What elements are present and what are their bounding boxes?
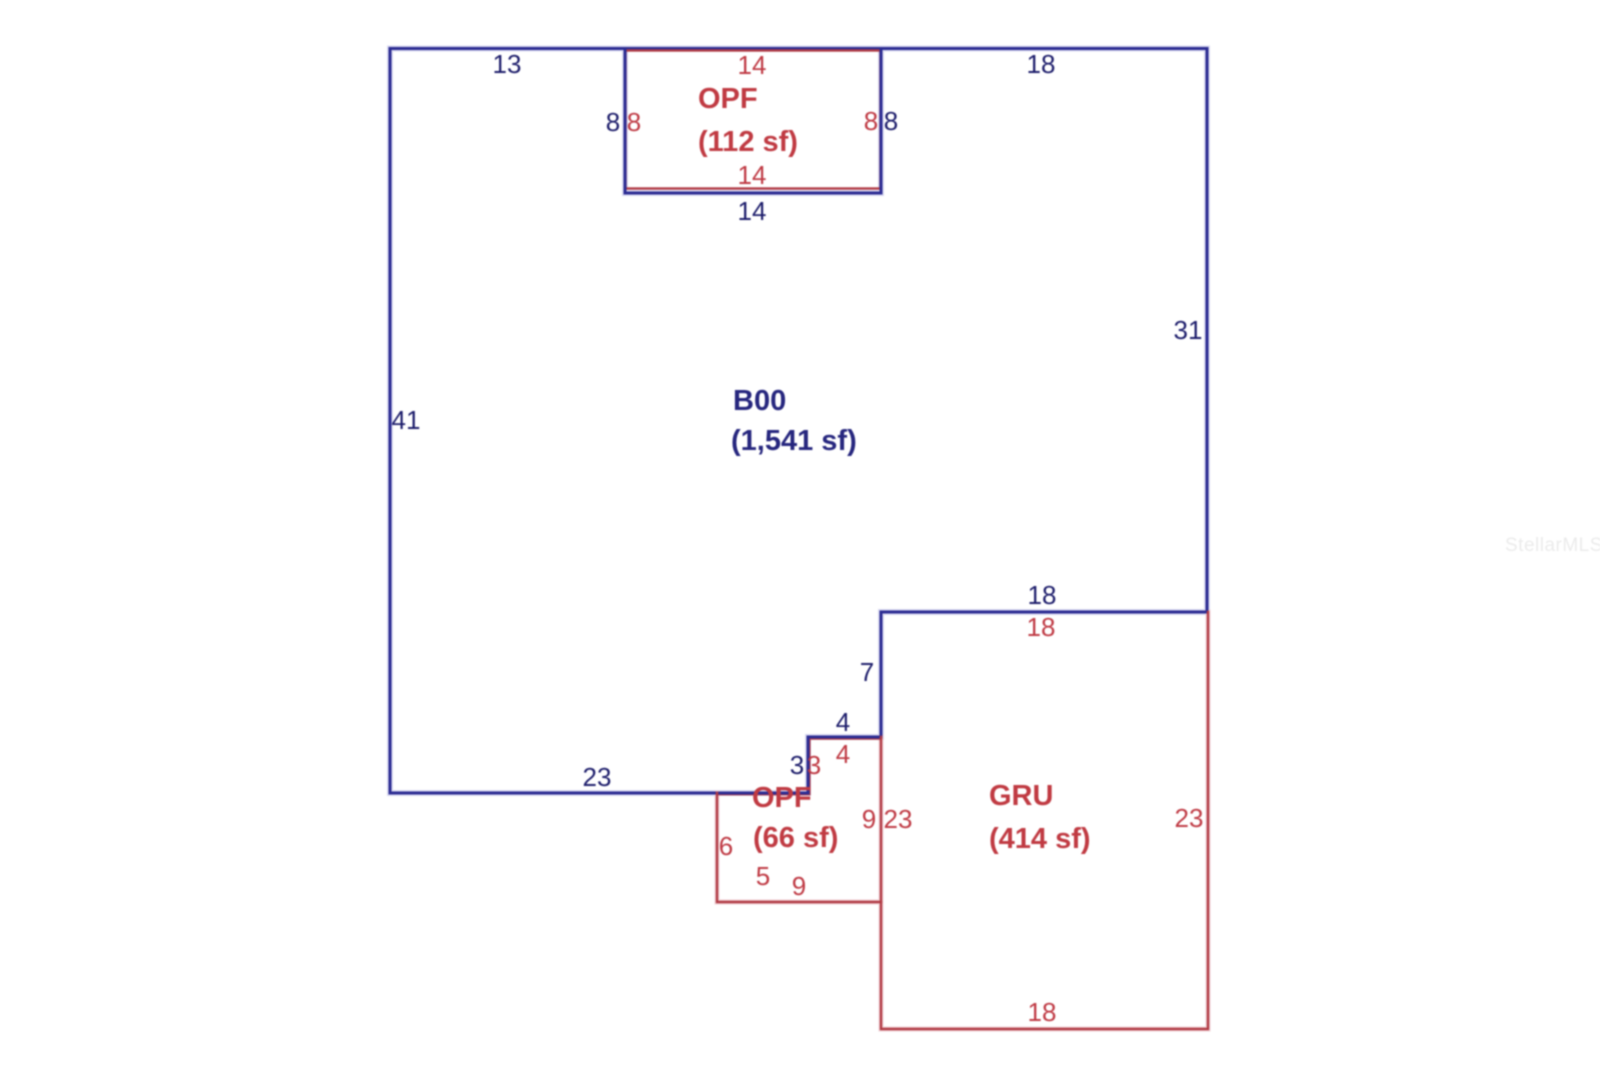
svg-text:4: 4 (836, 707, 850, 737)
svg-text:OPF: OPF (752, 782, 812, 814)
svg-text:GRU: GRU (989, 780, 1053, 812)
halo glow under red GRU and OPF outlines (717, 612, 1208, 1029)
svg-text:18: 18 (1027, 612, 1056, 642)
svg-text:(112 sf): (112 sf) (698, 126, 798, 158)
svg-text:23: 23 (583, 762, 612, 792)
svg-text:(1,541 sf): (1,541 sf) (731, 425, 857, 457)
svg-text:18: 18 (1027, 49, 1056, 79)
building B00 outline (blue polygon: top 13+14+18, right 31, bottom-right 18/7/4/3 steps, bottom 23, left 41) (390, 49, 1207, 794)
svg-text:18: 18 (1028, 997, 1057, 1027)
svg-text:41: 41 (392, 405, 421, 435)
svg-text:(66 sf): (66 sf) (753, 822, 838, 854)
garage GRU(414sf) red outline: left 23, bottom 18, right 23 (881, 612, 1208, 1029)
svg-text:8: 8 (606, 107, 620, 137)
svg-text:14: 14 (738, 50, 767, 80)
svg-text:7: 7 (860, 657, 874, 687)
porch OPF(66sf) red outline: left 6 and bottom 9 (717, 793, 881, 902)
svg-text:(414 sf): (414 sf) (989, 823, 1091, 855)
svg-text:4: 4 (836, 739, 850, 769)
svg-text:6: 6 (719, 831, 733, 861)
svg-text:31: 31 (1174, 315, 1203, 345)
svg-text:8: 8 (864, 106, 878, 136)
svg-text:18: 18 (1028, 580, 1057, 610)
svg-text:14: 14 (738, 196, 767, 226)
svg-text:8: 8 (627, 107, 641, 137)
svg-text:StellarMLS: StellarMLS (1505, 535, 1600, 556)
svg-text:9: 9 (792, 871, 806, 901)
svg-text:3: 3 (807, 750, 821, 780)
B00 top bump-out outline around OPF(112sf) (blue sides 8 and bottom 14) (625, 49, 881, 194)
svg-text:14: 14 (738, 160, 767, 190)
svg-text:5: 5 (756, 861, 770, 891)
svg-text:13: 13 (493, 49, 522, 79)
svg-text:23: 23 (884, 804, 913, 834)
svg-text:B00: B00 (733, 385, 786, 417)
svg-text:3: 3 (790, 750, 804, 780)
svg-text:OPF: OPF (698, 83, 758, 115)
svg-text:23: 23 (1175, 803, 1204, 833)
svg-text:9: 9 (862, 804, 876, 834)
porch OPF(112sf) red rectangle 14x8 at top (626, 51, 881, 189)
halo glow under blue B00 outline (390, 49, 1207, 794)
svg-text:8: 8 (884, 106, 898, 136)
porch OPF(66sf) shared top/step edges (red, tucked under blue outline) (717, 739, 881, 795)
